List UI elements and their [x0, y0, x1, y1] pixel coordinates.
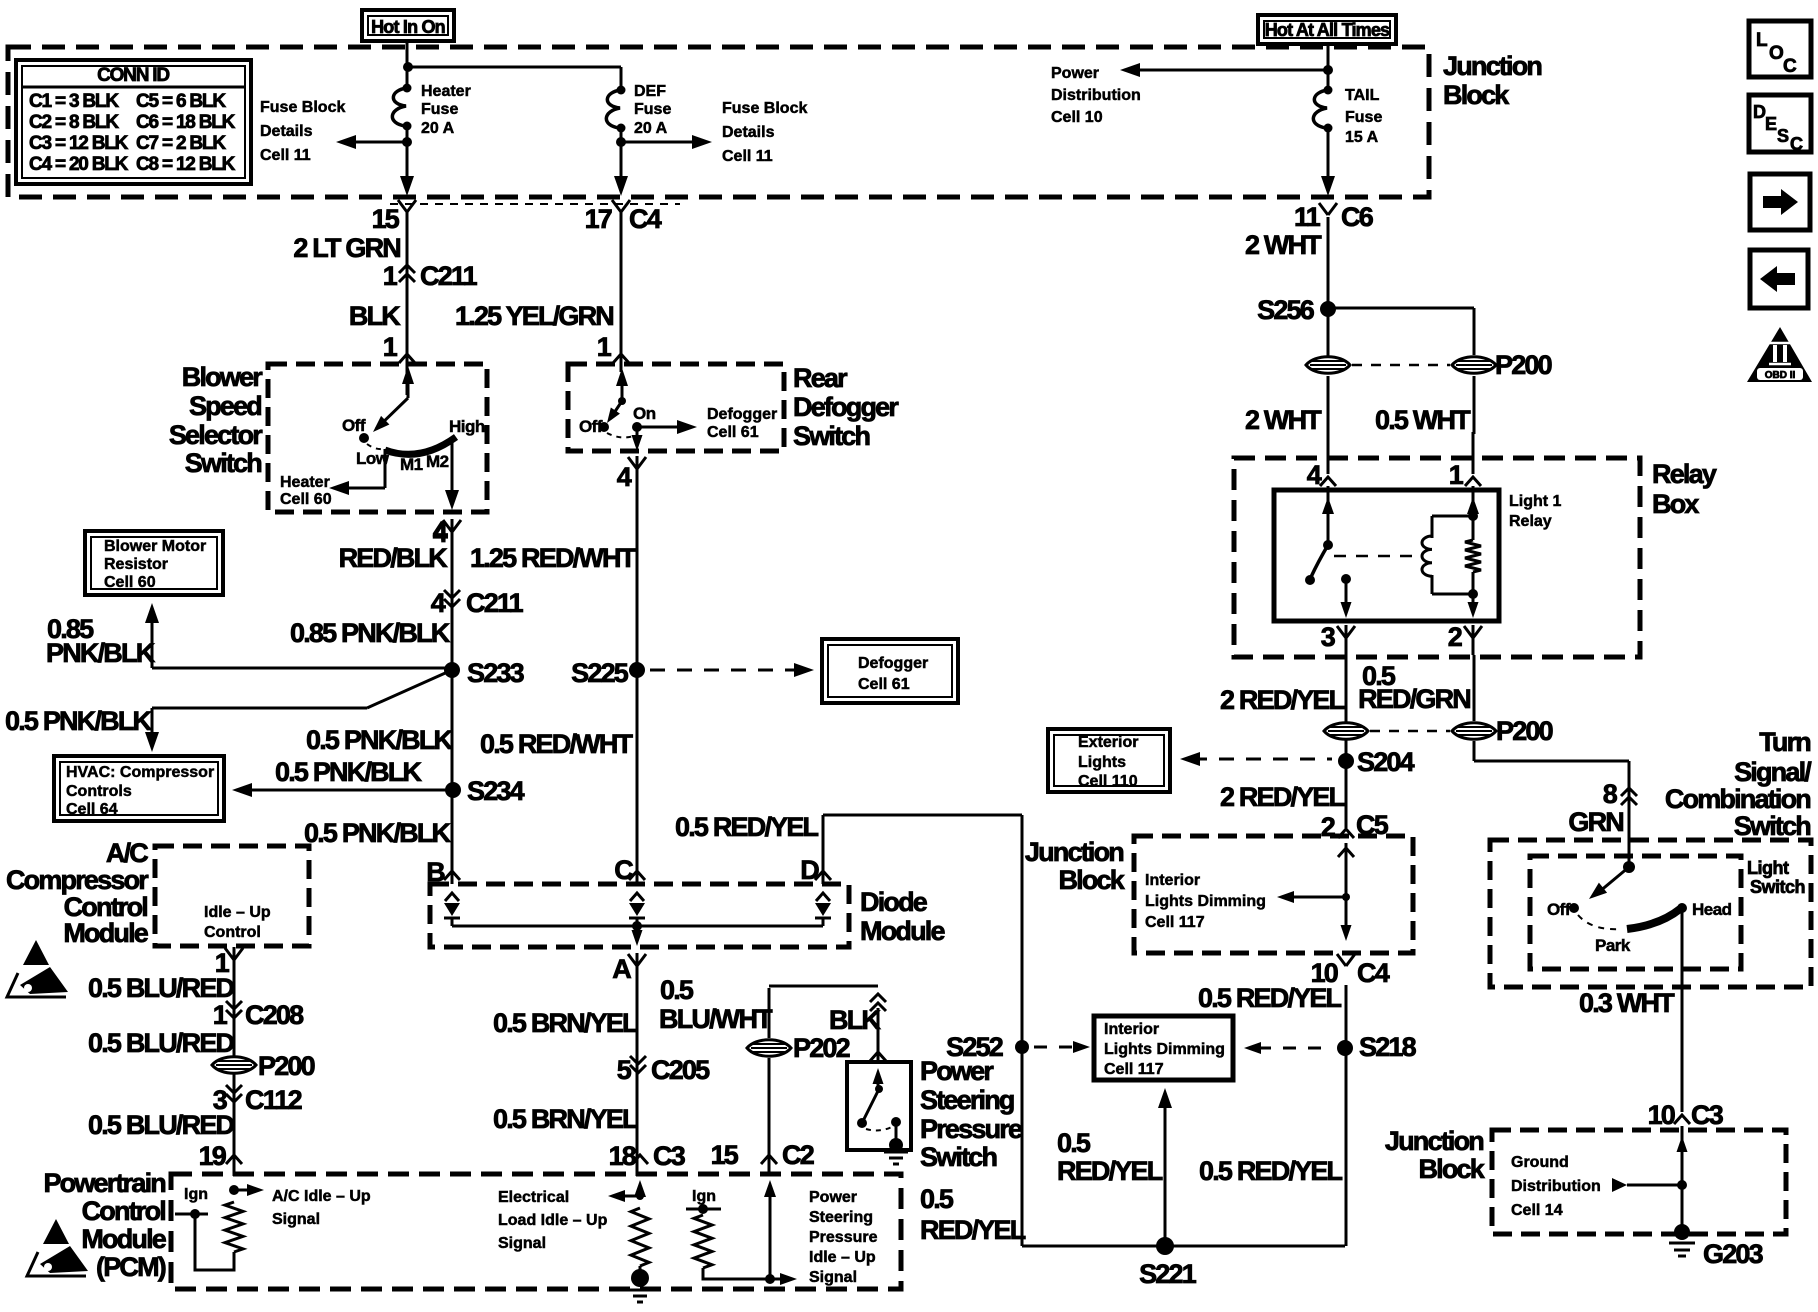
svg-text:HVAC: Compressor: HVAC: Compressor: [66, 764, 214, 781]
svg-text:0.5 PNK/BLK: 0.5 PNK/BLK: [5, 706, 153, 736]
svg-text:Defogger: Defogger: [858, 655, 928, 672]
svg-text:Fuse Block: Fuse Block: [260, 99, 345, 116]
svg-text:C: C: [1783, 56, 1797, 77]
svg-text:Fuse: Fuse: [1345, 109, 1382, 126]
svg-text:Block: Block: [1418, 1154, 1485, 1184]
svg-text:19: 19: [199, 1141, 227, 1171]
svg-text:0.5 WHT: 0.5 WHT: [1375, 405, 1471, 435]
svg-text:Power: Power: [809, 1189, 857, 1206]
svg-text:Speed: Speed: [189, 391, 261, 421]
svg-text:C6: C6: [1341, 202, 1374, 232]
svg-text:Module: Module: [81, 1224, 166, 1254]
svg-text:1: 1: [383, 261, 398, 291]
svg-text:2 LT GRN: 2 LT GRN: [293, 233, 400, 263]
svg-text:Diode: Diode: [860, 887, 928, 917]
svg-text:Defogger: Defogger: [707, 406, 777, 423]
svg-text:Junction: Junction: [1025, 837, 1123, 867]
svg-text:4: 4: [431, 588, 446, 618]
svg-text:Cell 110: Cell 110: [1078, 773, 1138, 790]
svg-text:Relay: Relay: [1652, 459, 1717, 489]
svg-text:0.5 PNK/BLK: 0.5 PNK/BLK: [275, 757, 423, 787]
svg-text:18: 18: [609, 1141, 637, 1171]
svg-text:DEF: DEF: [634, 83, 666, 100]
svg-text:P200: P200: [1496, 716, 1553, 746]
svg-text:Steering: Steering: [920, 1085, 1014, 1115]
svg-text:Distribution: Distribution: [1511, 1178, 1601, 1195]
svg-text:1.25 RED/WHT: 1.25 RED/WHT: [470, 543, 637, 573]
svg-text:Details: Details: [260, 123, 313, 140]
svg-text:Cell 10: Cell 10: [1051, 109, 1103, 126]
svg-text:0.85 PNK/BLK: 0.85 PNK/BLK: [290, 618, 451, 648]
svg-text:L: L: [1756, 30, 1768, 51]
svg-text:C205: C205: [651, 1055, 710, 1085]
svg-text:C5 = 6 BLK: C5 = 6 BLK: [136, 91, 226, 112]
svg-text:0.5 BLU/RED: 0.5 BLU/RED: [88, 1028, 235, 1058]
svg-text:4: 4: [433, 516, 448, 546]
svg-text:Cell 14: Cell 14: [1511, 1202, 1563, 1219]
svg-text:17: 17: [585, 204, 612, 234]
svg-text:C211: C211: [466, 588, 524, 618]
svg-text:Off: Off: [1547, 900, 1571, 919]
svg-text:P202: P202: [793, 1033, 850, 1063]
svg-text:S221: S221: [1139, 1259, 1197, 1289]
svg-text:PNK/BLK: PNK/BLK: [46, 638, 156, 668]
svg-text:C3 = 12 BLK: C3 = 12 BLK: [29, 133, 129, 154]
svg-text:Fuse: Fuse: [421, 101, 458, 118]
svg-text:0.5 BLU/RED: 0.5 BLU/RED: [88, 973, 235, 1003]
svg-text:0.5 BRN/YEL: 0.5 BRN/YEL: [493, 1104, 638, 1134]
svg-text:Cell 60: Cell 60: [104, 574, 156, 591]
svg-text:20 A: 20 A: [634, 120, 668, 137]
svg-text:Turn: Turn: [1759, 727, 1810, 757]
svg-text:Cell 11: Cell 11: [260, 147, 311, 164]
svg-text:15 A: 15 A: [1345, 129, 1379, 146]
svg-text:C4: C4: [1357, 958, 1390, 988]
svg-text:Ign: Ign: [184, 1186, 208, 1203]
svg-text:Junction: Junction: [1443, 51, 1541, 81]
svg-text:Control: Control: [82, 1196, 166, 1226]
svg-text:Relay: Relay: [1509, 513, 1552, 530]
svg-text:Box: Box: [1652, 489, 1699, 519]
svg-text:5: 5: [617, 1055, 632, 1085]
svg-text:G203: G203: [1703, 1239, 1764, 1269]
svg-text:0.5: 0.5: [1057, 1128, 1091, 1158]
svg-text:Cell 117: Cell 117: [1104, 1061, 1164, 1078]
svg-text:Block: Block: [1058, 865, 1125, 895]
svg-text:S256: S256: [1257, 295, 1315, 325]
svg-text:Switch: Switch: [1750, 877, 1805, 897]
svg-text:0.5 BLU/RED: 0.5 BLU/RED: [88, 1110, 235, 1140]
svg-text:C1 = 3 BLK: C1 = 3 BLK: [29, 91, 119, 112]
svg-text:Load Idle – Up: Load Idle – Up: [498, 1212, 608, 1229]
svg-text:Junction: Junction: [1385, 1126, 1483, 1156]
svg-text:10: 10: [1311, 958, 1338, 988]
svg-text:On: On: [633, 404, 656, 423]
svg-text:B: B: [426, 857, 445, 887]
svg-text:Details: Details: [722, 124, 775, 141]
svg-text:1: 1: [383, 332, 398, 362]
svg-text:1: 1: [1449, 460, 1464, 490]
svg-text:Exterior: Exterior: [1078, 734, 1138, 751]
svg-text:2 WHT: 2 WHT: [1245, 230, 1322, 260]
svg-text:C4: C4: [629, 204, 662, 234]
svg-text:C2 = 8 BLK: C2 = 8 BLK: [29, 112, 119, 133]
svg-text:BLK: BLK: [349, 301, 401, 331]
svg-text:3: 3: [1321, 622, 1336, 652]
svg-text:CONN ID: CONN ID: [97, 65, 169, 86]
svg-text:RED/YEL: RED/YEL: [1057, 1156, 1163, 1186]
svg-text:A: A: [612, 954, 631, 984]
svg-text:Power: Power: [1051, 65, 1099, 82]
svg-text:Distribution: Distribution: [1051, 87, 1141, 104]
svg-text:Pressure: Pressure: [809, 1229, 878, 1246]
svg-text:Light: Light: [1747, 858, 1789, 878]
svg-text:Fuse: Fuse: [634, 101, 671, 118]
svg-text:S: S: [1777, 126, 1789, 146]
svg-text:Fuse Block: Fuse Block: [722, 100, 807, 117]
svg-text:Head: Head: [1692, 900, 1732, 919]
svg-text:C7 = 2 BLK: C7 = 2 BLK: [136, 133, 226, 154]
svg-text:Heater: Heater: [280, 474, 330, 491]
svg-text:A/C Idle – Up: A/C Idle – Up: [272, 1188, 371, 1205]
svg-text:0.5 PNK/BLK: 0.5 PNK/BLK: [306, 725, 454, 755]
svg-text:10: 10: [1648, 1100, 1675, 1130]
svg-text:Signal: Signal: [272, 1211, 320, 1228]
svg-text:A/C: A/C: [106, 838, 148, 868]
svg-text:4: 4: [617, 462, 632, 492]
svg-text:1: 1: [597, 332, 612, 362]
svg-text:0.5 BRN/YEL: 0.5 BRN/YEL: [493, 1008, 638, 1038]
svg-text:Cell 11: Cell 11: [722, 148, 773, 165]
svg-text:Interior: Interior: [1104, 1021, 1159, 1038]
svg-text:(PCM): (PCM): [96, 1252, 166, 1282]
svg-text:Controls: Controls: [66, 783, 132, 800]
svg-text:P200: P200: [258, 1051, 315, 1081]
svg-text:2 WHT: 2 WHT: [1245, 405, 1322, 435]
svg-text:0.5 RED/WHT: 0.5 RED/WHT: [480, 729, 634, 759]
svg-text:0.5: 0.5: [660, 975, 694, 1005]
svg-text:0.5 RED/YEL: 0.5 RED/YEL: [1199, 1156, 1343, 1186]
svg-text:P200: P200: [1495, 350, 1552, 380]
svg-text:Pressure: Pressure: [920, 1114, 1023, 1144]
svg-text:High: High: [449, 417, 485, 436]
svg-text:Heater: Heater: [421, 83, 471, 100]
svg-text:S204: S204: [1357, 747, 1415, 777]
svg-text:Idle – Up: Idle – Up: [809, 1249, 876, 1266]
svg-text:Module: Module: [63, 918, 148, 948]
svg-text:2: 2: [1321, 812, 1335, 842]
svg-text:Signal: Signal: [809, 1269, 857, 1286]
svg-text:C5: C5: [1356, 810, 1389, 840]
svg-text:Steering: Steering: [809, 1209, 873, 1226]
svg-text:Defogger: Defogger: [793, 392, 899, 422]
svg-text:RED/YEL: RED/YEL: [920, 1215, 1026, 1245]
svg-text:Off: Off: [342, 416, 366, 435]
svg-text:Switch: Switch: [793, 421, 870, 451]
svg-text:Powertrain: Powertrain: [43, 1168, 165, 1198]
svg-text:BLK: BLK: [829, 1005, 881, 1035]
svg-text:Cell 61: Cell 61: [858, 676, 910, 693]
svg-text:Lights: Lights: [1078, 754, 1126, 771]
svg-text:TAIL: TAIL: [1345, 87, 1380, 104]
svg-text:Hot At All Times: Hot At All Times: [1265, 20, 1390, 40]
svg-text:C: C: [1790, 134, 1803, 154]
svg-text:Control: Control: [204, 924, 261, 941]
svg-text:C112: C112: [245, 1085, 302, 1115]
svg-text:Cell 60: Cell 60: [280, 491, 332, 508]
svg-text:S234: S234: [467, 776, 525, 806]
svg-text:Cell 117: Cell 117: [1145, 914, 1205, 931]
svg-text:Switch: Switch: [1734, 811, 1811, 841]
svg-text:C2: C2: [782, 1140, 814, 1170]
svg-text:Lights Dimming: Lights Dimming: [1145, 893, 1266, 910]
svg-text:15: 15: [372, 204, 400, 234]
svg-text:2 RED/YEL: 2 RED/YEL: [1220, 782, 1345, 812]
svg-text:O: O: [1769, 43, 1783, 64]
svg-text:Ign: Ign: [692, 1188, 716, 1205]
svg-text:Blower Motor: Blower Motor: [104, 538, 206, 555]
svg-text:0.5: 0.5: [920, 1184, 954, 1214]
svg-text:2 RED/YEL: 2 RED/YEL: [1220, 685, 1345, 715]
svg-text:Interior: Interior: [1145, 872, 1200, 889]
svg-text:Electrical: Electrical: [498, 1189, 569, 1206]
svg-text:RED/BLK: RED/BLK: [339, 543, 449, 573]
svg-text:Resistor: Resistor: [104, 556, 168, 573]
svg-text:Signal: Signal: [498, 1235, 546, 1252]
svg-text:0.3 WHT: 0.3 WHT: [1579, 988, 1675, 1018]
svg-text:Switch: Switch: [185, 448, 262, 478]
svg-text:Ground: Ground: [1511, 1154, 1569, 1171]
svg-text:1.25 YEL/GRN: 1.25 YEL/GRN: [455, 301, 613, 331]
svg-text:15: 15: [711, 1140, 739, 1170]
svg-text:Signal/: Signal/: [1734, 757, 1812, 787]
svg-text:Light 1: Light 1: [1509, 493, 1562, 510]
svg-text:Rear: Rear: [793, 363, 848, 393]
svg-text:Block: Block: [1443, 80, 1510, 110]
svg-text:1: 1: [213, 1000, 228, 1030]
svg-text:0.5 PNK/BLK: 0.5 PNK/BLK: [304, 818, 452, 848]
svg-text:C208: C208: [245, 1000, 304, 1030]
svg-text:Cell 61: Cell 61: [707, 424, 759, 441]
svg-text:C6 = 18 BLK: C6 = 18 BLK: [136, 112, 236, 133]
svg-text:C4 = 20 BLK: C4 = 20 BLK: [29, 154, 129, 175]
svg-text:Hot In On: Hot In On: [371, 17, 445, 37]
svg-text:Lights Dimming: Lights Dimming: [1104, 1041, 1225, 1058]
svg-text:Cell 64: Cell 64: [66, 801, 118, 818]
svg-text:GRN: GRN: [1568, 807, 1623, 837]
svg-text:E: E: [1765, 114, 1777, 134]
svg-text:S225: S225: [571, 658, 629, 688]
svg-text:20 A: 20 A: [421, 120, 455, 137]
svg-text:8: 8: [1603, 779, 1618, 809]
svg-text:S218: S218: [1359, 1032, 1417, 1062]
svg-text:Blower: Blower: [182, 362, 264, 392]
svg-text:BLU/WHT: BLU/WHT: [659, 1004, 773, 1034]
svg-text:OBD II: OBD II: [1765, 370, 1796, 381]
svg-text:11: 11: [1294, 202, 1321, 232]
svg-text:Idle – Up: Idle – Up: [204, 904, 271, 921]
svg-text:C211: C211: [420, 261, 478, 291]
svg-text:RED/GRN: RED/GRN: [1358, 684, 1470, 714]
svg-text:Combination: Combination: [1665, 784, 1810, 814]
svg-text:Off: Off: [579, 417, 603, 436]
svg-text:Module: Module: [860, 916, 945, 946]
svg-text:S233: S233: [467, 658, 525, 688]
svg-text:Park: Park: [1595, 936, 1631, 955]
svg-text:Compressor: Compressor: [6, 865, 149, 895]
svg-text:Switch: Switch: [920, 1142, 997, 1172]
svg-text:Selector: Selector: [169, 420, 263, 450]
svg-text:S252: S252: [946, 1032, 1003, 1062]
svg-text:M2: M2: [426, 452, 449, 471]
svg-text:C3: C3: [1691, 1100, 1724, 1130]
svg-text:M1: M1: [400, 455, 423, 474]
svg-text:0.5 RED/YEL: 0.5 RED/YEL: [675, 812, 819, 842]
svg-text:C8 = 12 BLK: C8 = 12 BLK: [136, 154, 236, 175]
svg-text:2: 2: [1448, 622, 1462, 652]
svg-text:C3: C3: [653, 1141, 686, 1171]
